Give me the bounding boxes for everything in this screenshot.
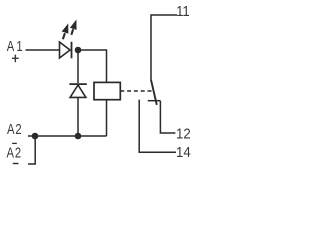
junction dot diode branch — [75, 133, 82, 140]
junction dot A2 — [32, 133, 39, 140]
minus sign — [13, 163, 19, 165]
terminal label A1 — [7, 38, 23, 55]
wire A2 negated lead — [28, 136, 35, 165]
wire coil bottom to rail — [106, 100, 108, 136]
NC contact bar 12 — [148, 100, 161, 102]
bottom rail wire A2 net — [28, 135, 107, 137]
svg-text:A2: A2 — [6, 144, 21, 161]
wire LED node to coil top — [78, 50, 107, 82]
node junction after LED — [75, 47, 82, 54]
wire LED node down to diode — [77, 50, 79, 83]
suppression diode D2 — [69, 84, 86, 97]
svg-text:14: 14 — [176, 143, 191, 160]
plus sign — [12, 55, 19, 63]
svg-text:11: 11 — [176, 2, 190, 19]
terminal label A2 negated — [6, 144, 21, 161]
svg-text:A1: A1 — [7, 38, 23, 55]
terminal label 11 — [176, 2, 190, 19]
svg-text:12: 12 — [176, 125, 191, 142]
NO contact wire 14 — [139, 100, 176, 153]
wire diode to bottom rail — [77, 97, 79, 136]
overbar of A2 negated — [12, 142, 17, 144]
switch blade — [151, 80, 157, 105]
wire contact 12 — [160, 101, 175, 133]
svg-text:A2: A2 — [7, 120, 22, 137]
relay coil K1 — [94, 82, 120, 99]
wire terminal 11 to contact — [151, 15, 177, 81]
wire A1 lead — [26, 49, 60, 51]
terminal label 12 — [176, 125, 191, 142]
dashed mechanical link — [120, 90, 152, 92]
terminal label A2 — [7, 120, 22, 137]
LED D1 — [60, 21, 77, 59]
terminal label 14 — [176, 143, 191, 160]
